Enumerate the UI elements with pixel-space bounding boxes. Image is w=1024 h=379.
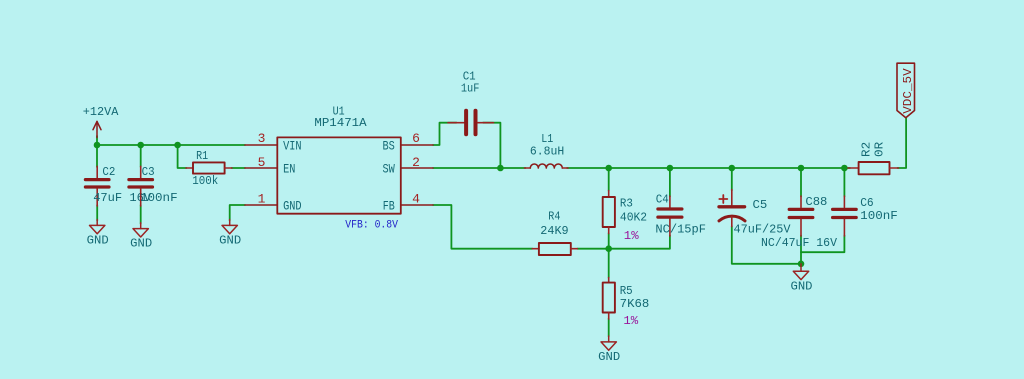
capacitor C5 (polarized) <box>719 190 745 227</box>
C5 plus sign <box>719 195 727 203</box>
svg-text:C3: C3 <box>142 165 155 179</box>
wire C88 top drop <box>800 168 802 197</box>
wire EN branch <box>178 145 187 168</box>
wire R5 bottom to ground <box>608 319 610 337</box>
svg-text:GND: GND <box>283 199 302 214</box>
resistor R2 <box>848 162 899 174</box>
svg-text:C88: C88 <box>805 195 827 209</box>
resistor R3 <box>603 191 615 234</box>
svg-text:R2: R2 <box>860 142 874 157</box>
capacitor C4 <box>658 196 682 236</box>
svg-text:5: 5 <box>258 155 266 170</box>
junction at C5 top <box>729 165 736 172</box>
capacitor C88 <box>789 196 813 236</box>
wire R4 to FB node <box>577 248 608 250</box>
junction at C3 <box>137 142 144 149</box>
op-amp U1 body <box>277 137 401 213</box>
wire BS to C1 <box>433 123 457 145</box>
svg-text:1%: 1% <box>623 314 638 328</box>
power symbol +12VA <box>93 121 101 137</box>
junction at C1/SW <box>497 165 504 172</box>
svg-text:100k: 100k <box>192 174 218 188</box>
ground under C2 <box>90 220 105 234</box>
svg-text:VIN: VIN <box>283 139 302 154</box>
svg-text:R5: R5 <box>620 284 633 298</box>
wire C6 top drop <box>843 168 845 197</box>
wire C3 to ground <box>140 205 142 224</box>
junction at EN branch <box>174 142 181 149</box>
wire C5 top drop <box>731 168 733 191</box>
global label VDC_5V <box>897 63 915 118</box>
svg-text:100nF: 100nF <box>860 209 898 223</box>
wire C88 bottom to ground node <box>800 236 802 264</box>
svg-text:24K9: 24K9 <box>540 224 568 238</box>
svg-text:40K2: 40K2 <box>620 210 647 224</box>
wire R2 to VDC_5V label <box>898 119 907 169</box>
junction at C4 top <box>667 165 674 172</box>
svg-text:R3: R3 <box>620 196 633 210</box>
svg-text:GND: GND <box>87 233 109 247</box>
svg-text:VDC_5V: VDC_5V <box>901 68 915 114</box>
wire SW to L1 <box>433 167 526 169</box>
svg-text:GND: GND <box>219 233 241 247</box>
svg-text:100nF: 100nF <box>140 191 178 205</box>
capacitor C6 <box>833 196 857 236</box>
junction at C6 top <box>841 165 848 172</box>
wire C1 to SW node <box>483 123 500 168</box>
wire FB pin to R4 <box>433 205 532 249</box>
resistor R5 <box>603 278 615 320</box>
svg-text:C2: C2 <box>102 165 115 179</box>
svg-text:R4: R4 <box>548 209 560 223</box>
wire FB node to R5 <box>608 249 610 278</box>
svg-text:GND: GND <box>791 279 813 293</box>
wire C3 drop <box>140 145 142 167</box>
svg-text:2: 2 <box>412 155 420 170</box>
svg-text:47uF/25V: 47uF/25V <box>734 222 792 236</box>
svg-text:C6: C6 <box>860 196 874 210</box>
junction at FB divider node <box>605 245 612 252</box>
capacitor C1 <box>448 111 494 135</box>
U1 pin 6 BS <box>401 144 433 146</box>
U1 pin 3 VIN <box>245 144 277 146</box>
svg-text:6.8uH: 6.8uH <box>530 145 564 159</box>
wire main +12V rail <box>97 144 245 146</box>
wire R3 bottom to FB node <box>608 233 610 249</box>
svg-text:C5: C5 <box>753 198 768 212</box>
ground under U1 GND pin <box>222 220 237 234</box>
svg-text:EN: EN <box>283 162 295 177</box>
wire L1 to output rail <box>567 167 850 169</box>
svg-text:6: 6 <box>412 131 420 146</box>
svg-text:1: 1 <box>258 192 266 207</box>
wire R1 to EN pin <box>232 167 246 169</box>
U1 pin 5 EN <box>245 167 277 169</box>
junction at R3 top <box>605 165 612 172</box>
junction at +12VA / C2 <box>94 142 101 149</box>
svg-text:MP1471A: MP1471A <box>314 116 367 130</box>
svg-text:C4: C4 <box>656 193 669 207</box>
wire C2 to ground <box>96 205 98 221</box>
svg-text:VFB: 0.8V: VFB: 0.8V <box>345 219 398 231</box>
ground under R5 <box>601 336 616 350</box>
svg-text:1%: 1% <box>624 229 639 243</box>
junction at ground node <box>798 261 805 268</box>
svg-text:FB: FB <box>383 199 395 214</box>
wire C6 bottom return <box>801 236 844 253</box>
wire C4 top drop <box>669 168 671 197</box>
inductor L1 <box>525 164 569 168</box>
svg-text:BS: BS <box>383 139 395 154</box>
capacitor C2 <box>85 166 109 206</box>
svg-text:0R: 0R <box>873 142 887 157</box>
svg-text:NC/47uF 16V: NC/47uF 16V <box>761 236 838 250</box>
U1 pin 4 FB <box>401 204 433 206</box>
svg-text:3: 3 <box>258 131 266 146</box>
wire FB node to C4 bottom <box>609 236 670 249</box>
svg-text:GND: GND <box>598 350 620 364</box>
wire +12VA arrow stem <box>96 136 98 145</box>
wire U1 GND pin to ground <box>230 205 245 221</box>
svg-text:SW: SW <box>383 162 395 177</box>
ground under C5/C88/C6 node <box>793 264 808 280</box>
U1 pin 2 SW <box>401 167 433 169</box>
capacitor C3 <box>129 166 153 206</box>
svg-text:7K68: 7K68 <box>620 297 650 311</box>
ground under C3 <box>133 223 148 237</box>
svg-text:NC/15pF: NC/15pF <box>655 223 706 237</box>
svg-text:+12VA: +12VA <box>83 105 119 119</box>
resistor R4 <box>532 243 577 255</box>
wire R3 top <box>608 168 610 191</box>
junction at C88 top <box>798 165 805 172</box>
resistor R1 <box>186 162 232 173</box>
wire C5 bottom to ground node <box>732 226 801 264</box>
U1 pin 1 GND <box>245 204 277 206</box>
svg-text:R1: R1 <box>196 149 208 163</box>
svg-text:GND: GND <box>130 237 152 251</box>
svg-text:4: 4 <box>412 192 420 207</box>
wire C2 drop <box>96 145 98 167</box>
svg-text:1uF: 1uF <box>461 82 480 96</box>
